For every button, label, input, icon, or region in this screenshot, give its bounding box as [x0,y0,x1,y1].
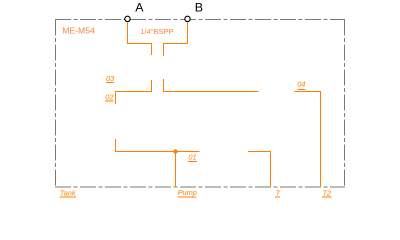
label T2 [322,189,331,198]
label Tank [60,189,76,198]
wire: drilling 04 to port T2 [295,92,321,188]
wire: port A drilling to cavity [128,22,152,55]
label 04 [297,80,306,90]
label 02 [105,92,113,101]
wire: drilling T to port T [248,152,271,188]
svg-text:02: 02 [105,92,113,101]
svg-text:1/4"BSPP: 1/4"BSPP [140,27,174,36]
svg-text:A: A [135,0,144,14]
svg-text:01: 01 [188,153,196,162]
label T [275,188,281,197]
svg-text:Pump: Pump [178,188,197,197]
manifold outline bottom border [55,186,345,188]
manifold outline left border [55,20,57,188]
label 03 [106,74,115,83]
wire: junction to Pump port [175,152,177,188]
wire: cavity stub to drilling 02 [116,80,152,104]
wire: port B drilling to cavity [164,22,188,56]
port B circle [185,16,190,21]
wire: cavity stub to drilling 03 run [164,79,259,92]
wire: lower cavity stub to drilling 01 [116,139,200,152]
label 01 [188,153,197,162]
svg-text:03: 03 [106,74,115,83]
svg-text:04: 04 [297,80,305,89]
svg-text:T2: T2 [323,189,332,198]
junction node [173,149,177,153]
label Pump [178,188,197,197]
manifold outline right border [344,20,346,188]
svg-text:Tank: Tank [60,189,76,198]
svg-text:T: T [276,188,281,197]
manifold outline top border [55,19,345,21]
port A circle [125,16,130,21]
svg-text:B: B [195,0,203,14]
svg-text:ME-M54: ME-M54 [62,26,95,36]
